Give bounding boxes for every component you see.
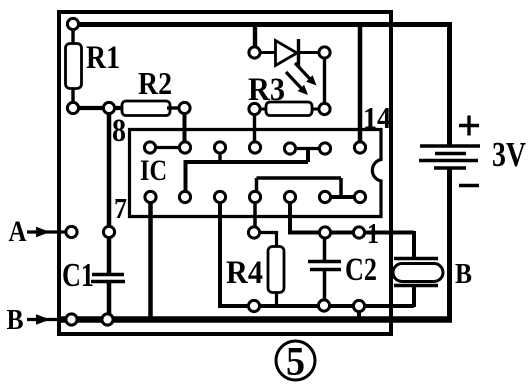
node 1 bbox=[353, 227, 364, 238]
wire battery negative lead bbox=[447, 168, 452, 322]
label circled 5 bbox=[276, 341, 315, 380]
buzzer B bbox=[394, 257, 438, 260]
node bottom row left bbox=[248, 300, 259, 311]
svg-text:B: B bbox=[455, 259, 472, 290]
IC pin 5 bbox=[214, 191, 225, 202]
wire battery positive lead bbox=[447, 22, 452, 146]
node A row 1 bbox=[66, 226, 77, 237]
wire top rail bbox=[73, 22, 452, 27]
wire pin6 up leg bbox=[184, 160, 188, 194]
wire node row y107 bbox=[73, 106, 124, 110]
IC pin 12 bbox=[284, 143, 295, 154]
wire C1 bottom lead bbox=[107, 280, 112, 320]
LED D1 bbox=[259, 51, 276, 54]
IC pin 13 bbox=[319, 143, 330, 154]
wire pin3 down elbow bbox=[290, 201, 322, 233]
wire pin5 down and bottom node row bbox=[220, 201, 414, 306]
wire buzzer top lead bbox=[412, 231, 416, 259]
node B row 2 bbox=[102, 314, 113, 325]
node B row 1 bbox=[66, 314, 77, 325]
wire LED stub bbox=[253, 24, 257, 48]
wire pin7 down bbox=[148, 201, 153, 318]
svg-text:R1: R1 bbox=[86, 40, 120, 76]
wire R3 to pin11 bbox=[253, 113, 256, 144]
IC pin 11 bbox=[249, 142, 260, 153]
IC pin 7 bbox=[145, 191, 156, 202]
wire internal horizontal 162 bbox=[186, 160, 309, 164]
wire internal horizontal 178 bbox=[257, 176, 342, 180]
svg-text:5: 5 bbox=[286, 339, 305, 384]
resistor R2 bbox=[122, 101, 170, 116]
IC pin 3 bbox=[284, 191, 295, 202]
svg-text:IC: IC bbox=[140, 154, 167, 187]
capacitor C1 bbox=[92, 273, 124, 276]
wire R1 top stub bbox=[71, 27, 74, 44]
wire pins 2-1 bbox=[325, 195, 360, 199]
node R2 right bbox=[179, 102, 190, 113]
wire leg at 256 bbox=[255, 178, 259, 192]
IC pin 6 bbox=[179, 191, 190, 202]
wire pin4 down bbox=[253, 201, 257, 229]
battery minus sign bbox=[459, 184, 479, 187]
IC pin 8 bbox=[144, 142, 155, 153]
wire node3 to pin9 bbox=[183, 110, 187, 144]
IC pin 1 bbox=[354, 191, 365, 202]
svg-text:R3: R3 bbox=[248, 72, 285, 108]
wire terminal A lead bbox=[27, 230, 66, 233]
battery plus sign bbox=[459, 116, 479, 136]
capacitor C2 top lead bbox=[323, 237, 327, 262]
wire pins 8-9 bbox=[151, 146, 184, 149]
node LED right bbox=[319, 47, 330, 58]
svg-text:3V: 3V bbox=[492, 135, 526, 174]
svg-text:C2: C2 bbox=[345, 252, 377, 288]
resistor R3 bbox=[258, 108, 268, 111]
node R1 bottom bbox=[67, 102, 78, 113]
svg-text:1: 1 bbox=[367, 219, 379, 250]
node top rail left bbox=[67, 18, 78, 29]
wire pins 12-13 bbox=[290, 147, 325, 150]
svg-text:R4: R4 bbox=[226, 255, 263, 291]
IC pin 10 bbox=[214, 142, 225, 153]
wire leg at 341 bbox=[339, 178, 343, 197]
wire R4 top elbow bbox=[258, 233, 277, 249]
wire pin14 vertical bbox=[358, 24, 363, 144]
svg-text:R2: R2 bbox=[138, 65, 172, 101]
wire main left vertical bbox=[107, 110, 112, 276]
board outline bbox=[59, 12, 391, 334]
capacitor C2 bbox=[308, 260, 341, 263]
svg-text:B: B bbox=[7, 304, 24, 336]
wire stub node to B rail bbox=[357, 308, 361, 319]
wire pin10 stub bbox=[218, 150, 221, 162]
node R2 left bbox=[103, 102, 114, 113]
node A row 2 bbox=[103, 226, 114, 237]
node R3 left bbox=[249, 103, 260, 114]
wire R4 bottom lead bbox=[275, 292, 278, 307]
node C2 bottom bbox=[318, 300, 329, 311]
wire LED right vertical bbox=[323, 56, 326, 105]
wire R2 right lead bbox=[167, 106, 181, 109]
wire node1 row y233 bbox=[320, 231, 414, 235]
capacitor C2 bottom lead bbox=[323, 269, 327, 302]
wire up leg 308 bbox=[306, 149, 310, 163]
svg-text:C1: C1 bbox=[62, 257, 94, 294]
LED arrow 1 bbox=[295, 63, 310, 79]
svg-text:A: A bbox=[9, 215, 27, 248]
svg-text:7: 7 bbox=[114, 194, 127, 225]
wire terminal B lead bbox=[27, 318, 62, 321]
IC U1 outline bbox=[130, 130, 382, 217]
IC pin 9 bbox=[179, 142, 190, 153]
IC pin 4 bbox=[249, 191, 260, 202]
node buzzer return bbox=[353, 300, 364, 311]
wire B rail bbox=[57, 316, 452, 323]
battery BT1 3V plates bbox=[420, 144, 480, 148]
node R3 right bbox=[319, 103, 330, 114]
resistor R1 bbox=[66, 44, 82, 89]
svg-text:14: 14 bbox=[363, 100, 391, 135]
node LED left bbox=[249, 47, 260, 58]
LED arrow 2 bbox=[286, 72, 301, 88]
resistor R4 bbox=[268, 247, 284, 293]
IC pin 2 bbox=[319, 191, 330, 202]
svg-text:8: 8 bbox=[112, 113, 126, 149]
wire R1 bottom lead bbox=[71, 88, 74, 104]
wire buzzer bottom lead bbox=[412, 285, 416, 307]
node pin4 below bbox=[248, 227, 259, 238]
node C2 top bbox=[319, 227, 330, 238]
IC pin 14 bbox=[354, 142, 365, 153]
